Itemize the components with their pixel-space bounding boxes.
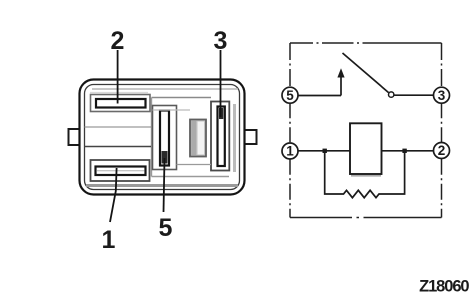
svg-text:5: 5	[159, 214, 173, 242]
svg-text:5: 5	[286, 88, 294, 103]
svg-text:3: 3	[438, 88, 446, 103]
svg-text:Z18060: Z18060	[419, 278, 469, 296]
svg-text:1: 1	[286, 144, 294, 159]
svg-text:1: 1	[102, 226, 116, 254]
svg-text:3: 3	[214, 27, 228, 55]
svg-text:2: 2	[438, 143, 446, 158]
svg-text:2: 2	[111, 27, 125, 55]
